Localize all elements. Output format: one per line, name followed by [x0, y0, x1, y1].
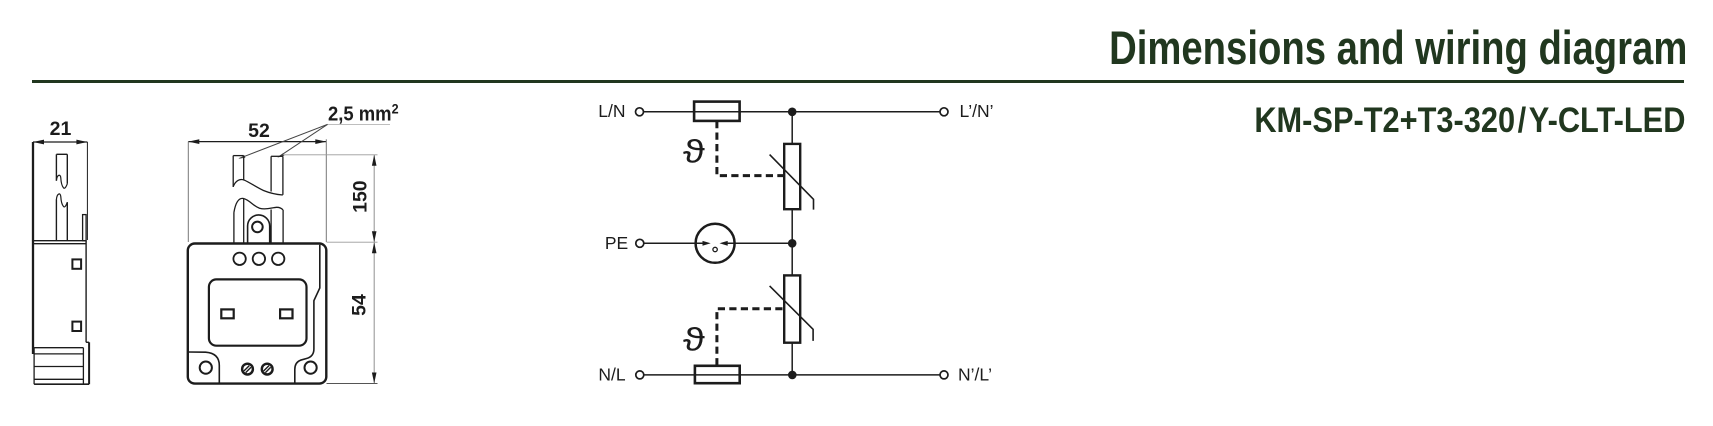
- mounting hole right: [305, 362, 317, 374]
- svg-text:L’/N’: L’/N’: [960, 101, 994, 121]
- side view right extension line: [86, 142, 88, 240]
- wire PE row right: [727, 242, 792, 244]
- green rule: [32, 80, 1684, 83]
- spark gap (gas discharge tube): [696, 224, 735, 263]
- LED window 3: [272, 253, 284, 265]
- svg-text:N/L: N/L: [598, 365, 626, 385]
- side view body right edge: [85, 241, 87, 343]
- fuse / disconnector top: [694, 102, 740, 121]
- front wires: left strip: [233, 155, 244, 157]
- extension line left of 52: [187, 142, 189, 242]
- svg-text:N’/L’: N’/L’: [958, 365, 992, 385]
- wire N/L row: [644, 374, 940, 376]
- socket slot right: [280, 309, 292, 318]
- side view top-right tab: [83, 215, 87, 241]
- front wires: right strip: [271, 155, 283, 157]
- wire varistor to PE node: [791, 209, 793, 275]
- side view body top edges: [33, 240, 86, 242]
- mounting hole left: [200, 362, 212, 374]
- varistor top: [784, 144, 800, 209]
- side view square hole upper: [72, 259, 81, 268]
- svg-text:150: 150: [350, 180, 372, 213]
- socket slot left: [221, 309, 233, 318]
- wire break upper wavy edge: [233, 179, 283, 195]
- lug inner wire edges: [243, 199, 245, 244]
- lug outer edges: [233, 213, 235, 244]
- side view right clip step: [86, 341, 89, 343]
- LED window 2: [253, 253, 265, 265]
- side view wire break tear (upper): [56, 175, 67, 188]
- dimension line 21: [33, 141, 87, 143]
- side view wire strip upper part: [232, 0, 234, 1]
- side view wire break tear (lower): [56, 194, 67, 207]
- extension line at body top: [327, 241, 378, 243]
- terminal L/N: [636, 108, 644, 116]
- svg-text:ϑ: ϑ: [683, 321, 705, 357]
- fuse / disconnector bottom: [695, 366, 740, 383]
- screw left: [241, 363, 254, 376]
- terminal PE: [636, 239, 644, 247]
- junction node middle: [788, 239, 797, 248]
- side view bottom stack horizontal lines: [34, 347, 83, 349]
- extension line right of 52: [325, 139, 327, 242]
- dimension line 52: [188, 141, 326, 143]
- body outline: [188, 244, 326, 384]
- extension line at wire tops: [283, 154, 377, 156]
- left ear pocket: [189, 352, 220, 383]
- junction node bottom: [788, 371, 797, 380]
- extension line at body bottom: [327, 383, 378, 385]
- parting line right side: [295, 245, 320, 384]
- terminal N'/L': [940, 371, 948, 379]
- side view wire strip lower part: [55, 199, 57, 240]
- side view square hole lower: [72, 322, 81, 331]
- screw right: [261, 363, 274, 376]
- 150/54 vertical dimension line: [373, 155, 375, 384]
- leader shelf line: [327, 123, 390, 125]
- product model name: [1254, 103, 1685, 138]
- svg-text:PE: PE: [605, 233, 628, 253]
- svg-text:2,5 mm2: 2,5 mm2: [328, 101, 399, 126]
- side view left edge / extension line: [32, 142, 34, 354]
- clevis arch: [248, 215, 270, 244]
- wire varistor to bottom node: [791, 343, 793, 375]
- socket recess: [209, 279, 307, 345]
- leader line to right wire: [279, 124, 328, 156]
- terminal N/L: [636, 371, 644, 379]
- terminal L'/N': [940, 108, 948, 116]
- thermal link dashed top: [717, 121, 783, 176]
- wire L/N row: [644, 111, 941, 113]
- side view bottom edge: [34, 383, 89, 385]
- thermal link dashed bottom: [717, 309, 783, 366]
- LED window 1: [233, 253, 245, 265]
- junction node top: [788, 108, 797, 117]
- clevis hole: [252, 222, 263, 233]
- leader line to left wire: [240, 124, 328, 158]
- svg-text:L/N: L/N: [598, 101, 625, 121]
- svg-text:21: 21: [50, 118, 72, 140]
- wire break lower wavy edge (lug top): [234, 198, 283, 212]
- varistor bottom: [784, 275, 800, 342]
- side view bottom stack verticals: [33, 348, 35, 385]
- svg-text:54: 54: [349, 294, 371, 316]
- svg-text:52: 52: [248, 120, 270, 142]
- section title: [1109, 24, 1687, 71]
- svg-text:ϑ: ϑ: [683, 133, 705, 169]
- wire PE row left: [644, 242, 703, 244]
- wire vertical bus top: [791, 112, 793, 144]
